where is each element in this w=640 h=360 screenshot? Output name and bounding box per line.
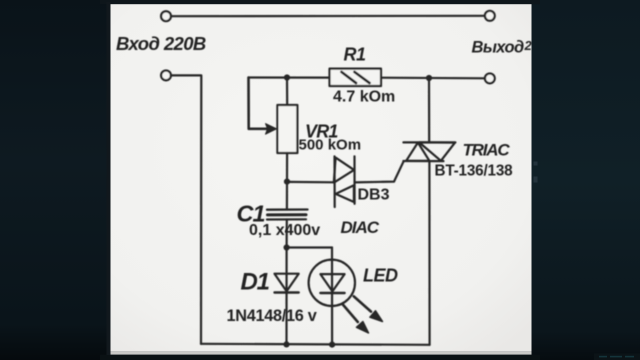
junction dot bottom rail at D1 [283,341,289,347]
wire: vertical from TRIAC bottom to bottom rail [428,161,430,344]
paper background of schematic photo [110,4,532,351]
faint cut-off glyphs on right dark bar [534,162,538,183]
terminal: output top [485,11,495,21]
diac DB3 [334,156,355,207]
LED indicator [309,260,355,306]
svg-text:R1: R1 [344,45,366,65]
bottom dark strip [100,355,540,360]
diode D1 [275,274,299,293]
wire: bottom rail [201,344,430,345]
svg-text:LED: LED [363,266,398,286]
dark edge line at left side of paper [107,2,111,355]
junction dot bottom rail at LED [329,342,335,348]
wire: vertical from node down to TRIAC top [428,78,430,142]
wire: DIAC right to TRIAC gate [355,161,404,182]
terminal: output bottom [485,74,495,84]
wire: LED vertical down to bottom rail [331,248,333,345]
left dark letterbox bar [0,0,110,360]
wire: branch to LED [287,246,332,248]
wire: top rail [171,15,485,18]
junction dot at triac top node [426,75,432,81]
wire: wiper feedback bracket with arrow into VR1 [249,78,277,135]
svg-text:0,1 x400v: 0,1 x400v [249,222,320,239]
svg-text:DIAC: DIAC [341,218,380,237]
junction dot lower node [284,244,290,250]
svg-text:Выход: Выход [472,39,524,57]
wire: D1 vertical down to bottom rail [285,248,287,345]
svg-text:2: 2 [524,38,533,53]
wire: VR1 bottom down to C1 [286,153,288,209]
wire: R1 right to output bottom terminal [382,77,486,80]
wire: branch to DIAC left [287,181,334,184]
LED light arrow 1 [354,296,383,321]
svg-text:Вход 220В: Вход 220В [116,33,206,54]
svg-text:BT-136/138: BT-136/138 [435,163,514,180]
svg-text:1N4148/16 v: 1N4148/16 v [227,307,317,325]
right dark letterbox bar [532,0,640,360]
capacitor C1 [267,210,308,220]
wire: C1 bottom down to lower node [286,220,288,248]
top dark strip [100,0,540,4]
svg-text:500 kOm: 500 kOm [299,137,362,154]
junction dot above VR1 [284,74,290,80]
junction dot at DIAC branch [284,179,290,185]
LED light arrow 2 [342,304,368,333]
terminal: input top [161,11,171,21]
terminal: input bottom [161,71,171,81]
tiny teal watermark bottom right [594,354,640,360]
triac BT-136/138 [403,142,455,161]
svg-text:DB3: DB3 [358,187,390,204]
svg-text:TRIAC: TRIAC [463,141,511,160]
wire: from input bottom terminal right then down left vertical [171,75,202,343]
svg-text:4.7 kOm: 4.7 kOm [333,89,395,106]
wire: from junction to R1 left [249,76,330,78]
svg-text:D1: D1 [241,269,270,296]
potentiometer VR1 [277,105,297,153]
resistor R1 [330,69,382,86]
wire: junction down to VR1 top [286,78,288,106]
